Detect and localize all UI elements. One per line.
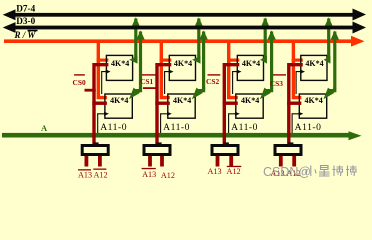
svg-text:4K*4: 4K*4 bbox=[111, 59, 129, 68]
wire address A11-0 into U2 bbox=[98, 112, 109, 136]
wire R/W drop to bank 3 bbox=[292, 41, 303, 97]
pin label A12 of G1 bbox=[161, 171, 175, 180]
wire address A11-0 into U1 bbox=[102, 70, 111, 95]
svg-text:A13: A13 bbox=[142, 170, 156, 179]
wire data D3-0 of bank 3 bbox=[323, 30, 339, 99]
svg-text:4K*4: 4K*4 bbox=[241, 96, 259, 105]
svg-text:4K*4: 4K*4 bbox=[305, 59, 323, 68]
pin label A12bar of G2 bbox=[227, 166, 242, 176]
wire address A11-0 into U3 bbox=[165, 70, 174, 95]
wire data D7-4 of bank 3 bbox=[324, 17, 333, 63]
svg-text:A11-0: A11-0 bbox=[100, 122, 127, 133]
net label CS3 (active low) bbox=[270, 74, 286, 88]
svg-text:CS1: CS1 bbox=[140, 77, 153, 86]
memory chip U4 4K*4 (lower, D3-0 nibble) bbox=[168, 94, 195, 118]
svg-text:A13: A13 bbox=[207, 167, 221, 176]
wire data D7-4 of bank 0 bbox=[129, 17, 140, 63]
wire data D3-0 of bank 1 bbox=[192, 30, 208, 99]
svg-text:CSDN@: CSDN@ bbox=[263, 165, 311, 179]
gate G2 input stubs A13,A12 bbox=[216, 156, 234, 167]
decoder gate G3 (AND) bbox=[275, 142, 301, 154]
wire address A11-0 into U5 bbox=[233, 70, 242, 95]
svg-text:A12: A12 bbox=[93, 171, 107, 180]
bus R/W (read-write control) bbox=[4, 36, 365, 47]
svg-text:A: A bbox=[41, 123, 48, 133]
gate G1 input stubs A13,A12 bbox=[148, 156, 164, 167]
svg-text:4K*4: 4K*4 bbox=[174, 59, 192, 68]
wire R/W drop to bank 1 bbox=[160, 41, 172, 97]
svg-text:A11-0: A11-0 bbox=[163, 122, 190, 133]
decoder gate G0 (AND) bbox=[82, 142, 108, 154]
bus A (address) bbox=[2, 131, 362, 140]
svg-text:A13: A13 bbox=[78, 171, 92, 180]
svg-text:CS0: CS0 bbox=[73, 78, 86, 87]
wire data D7-4 of bank 2 bbox=[260, 17, 269, 63]
wire address A11-0 into U4 bbox=[161, 112, 172, 136]
bus D3-0 bbox=[3, 22, 366, 34]
svg-text:4K*4: 4K*4 bbox=[305, 96, 323, 105]
pin label A13bar of G0 bbox=[78, 169, 92, 179]
decoder gate G2 (AND) bbox=[212, 142, 238, 154]
pin label A13 of G3 bbox=[270, 169, 284, 178]
wire address A11-0 into U7 bbox=[296, 70, 305, 95]
memory chip U6 4K*4 (lower, D3-0 nibble) bbox=[236, 94, 263, 118]
memory chip U1 4K*4 (upper, D7-4 nibble) bbox=[106, 55, 132, 80]
net label CS2 (active low) bbox=[206, 74, 220, 86]
pin label A13 of G2 bbox=[207, 167, 221, 176]
svg-text:A11-0: A11-0 bbox=[231, 122, 258, 133]
svg-text:CS3: CS3 bbox=[270, 79, 283, 88]
watermark CSDN@xiaoxingbobo bbox=[263, 165, 357, 179]
memory chip U2 4K*4 (lower, D3-0 nibble) bbox=[105, 94, 132, 118]
net label CS0 (active low) bbox=[73, 74, 96, 91]
wire address A11-0 into U8 bbox=[292, 112, 303, 136]
svg-text:D7-4: D7-4 bbox=[16, 4, 35, 14]
svg-text:A12: A12 bbox=[227, 167, 241, 176]
wire CS0 vertical from decoder to chips bbox=[92, 65, 108, 146]
pin label A13bar of G1 bbox=[142, 168, 157, 179]
memory chip U7 4K*4 (upper, D7-4 nibble) bbox=[301, 55, 327, 80]
wire R/W drop to bank 2 bbox=[227, 41, 239, 97]
wire data D3-0 of bank 0 bbox=[129, 30, 145, 99]
svg-text:D3-0: D3-0 bbox=[16, 16, 35, 26]
wire data D7-4 of bank 1 bbox=[192, 17, 203, 63]
wire data D3-0 of bank 2 bbox=[260, 30, 276, 99]
wire CS1 vertical from decoder to chips bbox=[155, 65, 171, 146]
memory chip U3 4K*4 (upper, D7-4 nibble) bbox=[169, 55, 195, 80]
svg-text:A12: A12 bbox=[161, 171, 175, 180]
pin label A12bar of G0 bbox=[93, 169, 107, 180]
memory chip U8 4K*4 (lower, D3-0 nibble) bbox=[299, 94, 326, 118]
wire CS3 vertical from decoder to chips bbox=[287, 65, 303, 146]
gate G3 input stubs A13,A12 bbox=[279, 156, 296, 167]
svg-text:4K*4: 4K*4 bbox=[173, 96, 191, 105]
svg-text:A11-0: A11-0 bbox=[295, 122, 322, 133]
net label R/W-bar bbox=[14, 30, 38, 40]
decoder gate G1 (AND) bbox=[144, 142, 170, 154]
wire R/W drop to bank 0 bbox=[97, 41, 109, 97]
wire address A11-0 into U6 bbox=[229, 112, 240, 136]
svg-text:CS2: CS2 bbox=[206, 77, 219, 86]
pin label A12 of G3 bbox=[286, 169, 300, 178]
gate G0 input stubs A13,A12 bbox=[85, 156, 102, 167]
memory chip U5 4K*4 (upper, D7-4 nibble) bbox=[237, 55, 263, 80]
svg-text:4K*4: 4K*4 bbox=[242, 59, 260, 68]
bus D7-4 bbox=[3, 9, 366, 21]
wire CS2 vertical from decoder to chips bbox=[223, 65, 240, 146]
net label CS1 (active low) bbox=[140, 74, 158, 89]
svg-text:4K*4: 4K*4 bbox=[110, 96, 128, 105]
